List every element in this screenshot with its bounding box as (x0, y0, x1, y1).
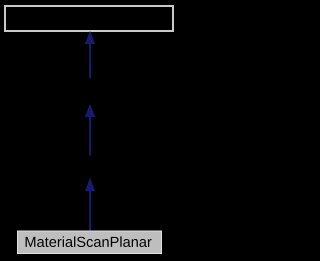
inheritance arrow 2 (middle) (85, 104, 95, 156)
label: MaterialScanPlanar (26, 236, 152, 247)
node: MaterialScanPlanar box (bottom) (18, 231, 162, 254)
inheritance arrow 3 (bottom) (85, 178, 95, 231)
inheritance arrow 1 (top) (85, 31, 95, 78)
node: base class box (empty, top) (5, 6, 173, 31)
